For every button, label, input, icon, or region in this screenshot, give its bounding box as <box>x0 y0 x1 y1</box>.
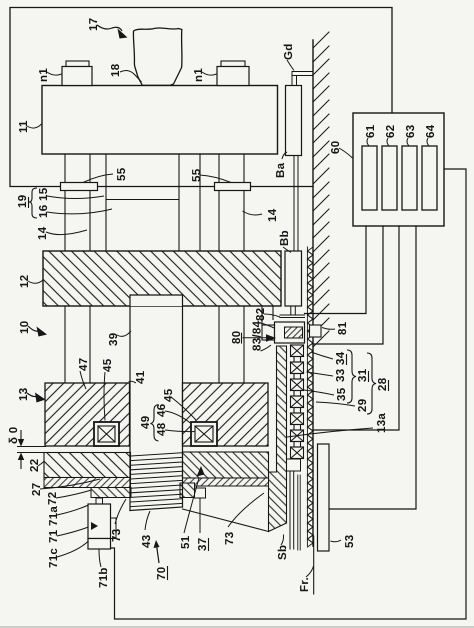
wire top frame from control box 60 to clamp row <box>10 8 392 187</box>
direction line Fr <box>313 536 315 594</box>
label 84 <box>252 320 275 351</box>
svg-text:81: 81 <box>337 321 349 335</box>
label 35 <box>304 387 348 401</box>
gap band 22 left <box>44 453 131 478</box>
stator block 13 left <box>45 383 130 446</box>
svg-text:73: 73 <box>111 529 123 542</box>
driver 64 <box>422 146 437 210</box>
svg-text:35: 35 <box>336 387 348 401</box>
label 73 right <box>224 493 264 545</box>
svg-text:Ba: Ba <box>275 162 287 178</box>
svg-text:63: 63 <box>405 125 417 138</box>
label 81 <box>322 321 349 335</box>
label 37 <box>197 498 209 551</box>
magnet stack boxes <box>291 345 304 459</box>
svg-text:18: 18 <box>110 63 122 77</box>
svg-text:33: 33 <box>335 369 347 382</box>
label 12 <box>19 275 43 288</box>
svg-text:14: 14 <box>267 208 279 222</box>
wall hatching <box>313 32 329 347</box>
coil 46 left <box>94 422 119 446</box>
label 29 <box>316 399 369 412</box>
svg-text:64: 64 <box>425 124 437 138</box>
tool 17 body <box>133 28 182 85</box>
label 51 arrow <box>180 466 205 549</box>
nut block 51 <box>183 452 269 478</box>
clamp 55 right <box>215 183 251 191</box>
label 63 <box>405 125 417 146</box>
disc Sb edge <box>183 509 269 532</box>
svg-text:73: 73 <box>224 532 236 545</box>
label 15 <box>38 187 104 201</box>
driver 61 <box>362 146 377 210</box>
svg-text:41: 41 <box>135 370 147 384</box>
extra rod lines <box>297 475 299 550</box>
svg-text:Fr.: Fr. <box>299 577 311 592</box>
svg-text:46: 46 <box>156 404 168 417</box>
label 14 right <box>243 208 280 222</box>
label 55 right <box>191 168 231 182</box>
bracket Gd <box>292 72 313 86</box>
base block 12 <box>43 251 281 306</box>
wire 63 to rail lower <box>313 226 399 430</box>
clamp 55 left <box>61 183 98 191</box>
label 64 <box>425 124 437 146</box>
workpiece n1 left <box>62 61 92 86</box>
label 73 left <box>111 499 126 542</box>
wire 64 to plate 53 <box>330 226 416 509</box>
svg-text:61: 61 <box>365 124 377 138</box>
svg-text:16: 16 <box>38 205 50 218</box>
wire 62 to rail <box>313 226 383 344</box>
wire 61 to nut 81 <box>305 226 367 314</box>
svg-text:19: 19 <box>17 195 29 208</box>
svg-text:34: 34 <box>335 351 347 365</box>
bearing unit 82 <box>262 307 305 344</box>
label 11 <box>18 120 42 133</box>
label 53 <box>331 535 357 548</box>
svg-text:n1: n1 <box>193 68 205 82</box>
screw shaft thread strip left edge <box>306 247 308 546</box>
svg-text:48: 48 <box>156 422 168 436</box>
label 28 bracket <box>367 353 389 414</box>
support lines below 12 left <box>65 306 90 383</box>
svg-text:n1: n1 <box>38 68 50 82</box>
label 18 <box>110 63 142 82</box>
label 33 <box>307 369 348 382</box>
svg-text:29: 29 <box>357 399 369 412</box>
label 47 <box>78 358 90 389</box>
rod Ba-Bb <box>294 156 298 252</box>
spindle column 39 notch in block 12 <box>131 295 183 306</box>
stator block right <box>183 383 269 446</box>
label 60 <box>330 141 353 158</box>
label 22 <box>29 459 45 472</box>
label 49 bracket <box>140 405 159 442</box>
band 27 left <box>44 478 131 488</box>
guide rail wall <box>312 40 314 546</box>
svg-text:49: 49 <box>140 416 152 429</box>
label delta0 dim <box>8 427 46 469</box>
label Gd <box>283 43 295 70</box>
coil 46 right <box>191 422 217 446</box>
svg-text:15: 15 <box>38 187 50 201</box>
label Bb <box>279 230 291 252</box>
svg-text:71a: 71a <box>48 506 60 526</box>
svg-text:43: 43 <box>141 535 153 548</box>
scan edge artifact bottom <box>0 626 474 628</box>
svg-text:Gd: Gd <box>283 43 295 60</box>
svg-text:37: 37 <box>197 538 209 551</box>
label 62 <box>385 125 397 146</box>
svg-text:71b: 71b <box>98 567 110 588</box>
table block 11 <box>42 86 278 155</box>
label 45 right <box>163 388 196 420</box>
label 71a <box>48 505 89 526</box>
svg-text:45: 45 <box>102 358 114 372</box>
screw shaft thread strip <box>308 247 314 543</box>
screw 43 threads <box>130 452 183 511</box>
wire right loop to actuator 71 <box>111 169 467 619</box>
label Sb <box>277 535 289 561</box>
leg lines under table <box>65 154 244 251</box>
label 10 arrow <box>19 321 47 337</box>
label 27 <box>31 479 100 496</box>
label 34 <box>311 351 347 365</box>
svg-text:Bb: Bb <box>279 230 291 246</box>
driver 62 <box>382 146 397 210</box>
label 82 <box>255 308 280 321</box>
label 48 <box>156 422 196 436</box>
svg-text:45: 45 <box>163 388 175 402</box>
scale plate 53 <box>318 444 330 551</box>
svg-text:47: 47 <box>78 358 90 371</box>
mount 72 left <box>91 488 131 498</box>
label 43 <box>141 511 153 548</box>
driver 63 <box>402 146 417 210</box>
svg-text:Sb: Sb <box>277 545 289 560</box>
label 61 <box>365 124 377 146</box>
label 72 <box>47 490 92 505</box>
spindle column 39 <box>130 295 183 452</box>
label 16 <box>38 205 112 218</box>
label 71 <box>48 527 89 543</box>
svg-text:70: 70 <box>156 567 168 580</box>
support lines below 12 right <box>219 306 273 383</box>
svg-text:31: 31 <box>357 368 369 382</box>
plate Ba <box>286 86 302 156</box>
band 27 right <box>183 478 269 486</box>
label 19 bracket <box>17 188 37 218</box>
svg-text:13a: 13a <box>376 413 388 433</box>
label 46 <box>156 404 191 424</box>
screw shaft thread strip cross zigzag <box>308 251 314 547</box>
label 70 arrow <box>154 540 169 580</box>
arrow in actuator <box>91 522 98 530</box>
label n1 right <box>193 68 217 82</box>
label 71c <box>48 541 89 568</box>
label n1 left <box>38 68 62 82</box>
svg-text:53: 53 <box>344 535 356 548</box>
label 31 bracket <box>347 350 369 403</box>
label 41 <box>129 370 148 384</box>
label 14 left <box>37 226 87 240</box>
svg-text:60: 60 <box>330 141 342 154</box>
control box 60 <box>353 113 444 226</box>
label 17 <box>88 18 128 39</box>
actuator 71 <box>88 498 116 549</box>
bracket 37 piece <box>180 483 206 498</box>
svg-text:14: 14 <box>37 226 49 240</box>
label 83 arrow <box>261 345 272 351</box>
label 13a <box>287 413 388 437</box>
svg-text:55: 55 <box>116 167 128 181</box>
label Ba <box>275 152 287 178</box>
label 39 <box>108 331 131 346</box>
svg-text:28: 28 <box>377 377 389 391</box>
stack lower step <box>285 459 301 549</box>
svg-text:83/84: 83/84 <box>252 320 264 351</box>
nut 81 <box>310 325 322 337</box>
svg-text:62: 62 <box>385 125 397 138</box>
workpiece n1 right <box>217 61 249 86</box>
svg-text:17: 17 <box>88 18 100 31</box>
label 80 dim <box>231 331 276 344</box>
plate Bb <box>285 251 302 306</box>
svg-text:71c: 71c <box>48 548 60 568</box>
svg-text:51: 51 <box>180 535 192 549</box>
label Fr <box>299 566 314 592</box>
label 45 left <box>102 358 114 420</box>
sleeve column Sb <box>269 346 287 532</box>
label 55 left <box>83 167 128 182</box>
label 13 arrow <box>18 388 46 403</box>
svg-text:39: 39 <box>108 333 120 346</box>
label 71b <box>98 550 110 589</box>
svg-text:δ 0: δ 0 <box>8 427 20 444</box>
